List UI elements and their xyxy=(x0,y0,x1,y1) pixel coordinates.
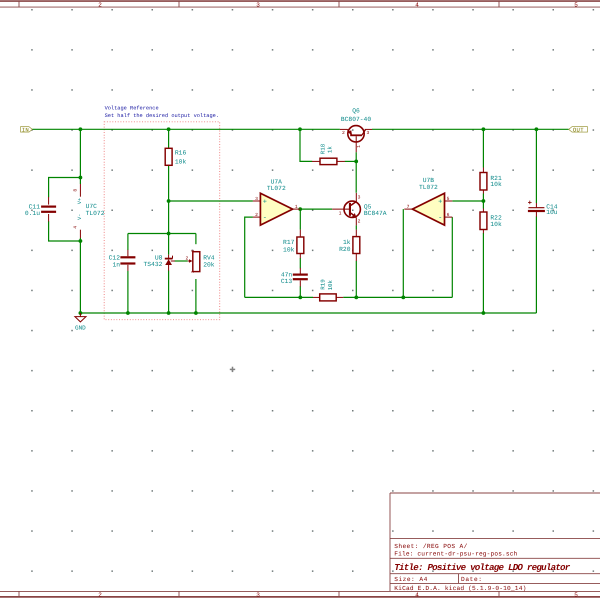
svg-text:5: 5 xyxy=(574,591,578,598)
resistor R18 xyxy=(312,143,345,164)
svg-text:3: 3 xyxy=(256,591,260,598)
svg-text:File: current-dr-psu-reg-pos.s: File: current-dr-psu-reg-pos.sch xyxy=(394,551,517,558)
svg-text:BC807-40: BC807-40 xyxy=(341,116,371,123)
wire C14 branch xyxy=(535,129,537,313)
transistor Q5 BC847A xyxy=(332,193,387,225)
wire V+ riser xyxy=(79,129,81,184)
svg-text:4: 4 xyxy=(415,2,419,9)
wire ground rail xyxy=(80,312,536,314)
sheet frame top xyxy=(0,1,600,7)
wire C11 bottom link xyxy=(49,221,81,241)
wire V- to ground xyxy=(79,238,81,313)
svg-text:Q6: Q6 xyxy=(352,108,360,115)
svg-text:TL072: TL072 xyxy=(267,185,286,192)
svg-text:KiCad E.D.A. kicad (5.1.9-0-1: KiCad E.D.A. kicad (5.1.9-0-10_14) xyxy=(394,585,526,592)
ground symbol xyxy=(75,313,86,332)
svg-text:5: 5 xyxy=(574,2,578,9)
wire C12 branch xyxy=(127,234,129,314)
svg-text:TS432: TS432 xyxy=(143,261,162,268)
svg-text:2: 2 xyxy=(98,2,102,9)
shunt reference U8 TS432 xyxy=(143,255,174,271)
op-amp U7A xyxy=(253,178,300,225)
svg-text:10k: 10k xyxy=(283,247,295,254)
svg-text:5: 5 xyxy=(447,196,450,202)
svg-text:OUT: OUT xyxy=(573,126,584,133)
junction dots xyxy=(79,127,539,315)
resistor R21 xyxy=(480,168,502,194)
svg-text:7: 7 xyxy=(407,204,410,210)
resistor R22 xyxy=(480,209,502,234)
resistor R16 xyxy=(165,148,186,165)
wire C11 top link xyxy=(49,178,81,198)
title block xyxy=(390,493,600,591)
svg-text:+: + xyxy=(438,198,442,206)
sheet frame bottom numbers xyxy=(98,591,578,598)
svg-text:10k: 10k xyxy=(327,279,334,290)
svg-text:TL072: TL072 xyxy=(419,184,438,191)
svg-text:8: 8 xyxy=(73,189,79,192)
svg-text:3: 3 xyxy=(255,196,258,202)
global label OUT xyxy=(569,126,588,133)
svg-text:10k: 10k xyxy=(175,159,187,166)
capacitor C12 xyxy=(109,250,136,271)
svg-text:3: 3 xyxy=(256,2,260,9)
transistor Q6 BC807-40 xyxy=(340,108,372,153)
svg-text:4: 4 xyxy=(415,591,419,598)
svg-text:V-: V- xyxy=(77,214,83,220)
wire U7B pin6 riser xyxy=(451,217,453,297)
capacitor C13 xyxy=(281,268,308,287)
note: voltage reference comment xyxy=(105,106,219,120)
wire R18 net xyxy=(300,129,356,193)
svg-text:+: + xyxy=(263,198,267,206)
svg-text:1k: 1k xyxy=(343,239,351,246)
svg-text:Voltage Reference: Voltage Reference xyxy=(105,106,159,112)
resistor R20 xyxy=(339,230,360,261)
svg-text:3: 3 xyxy=(367,130,370,136)
wire U7A output to Q5 base xyxy=(300,208,332,210)
capacitor C14 polarized xyxy=(528,201,558,217)
wire R16 branch xyxy=(169,129,253,233)
wire IN rail xyxy=(32,128,568,130)
svg-text:10u: 10u xyxy=(546,209,558,216)
svg-text:2: 2 xyxy=(358,219,361,225)
svg-text:R17: R17 xyxy=(283,239,295,246)
svg-text:0.1u: 0.1u xyxy=(25,210,40,217)
wire U8 branch xyxy=(169,234,188,314)
svg-text:2: 2 xyxy=(255,212,258,218)
svg-text:U7B: U7B xyxy=(423,177,435,184)
svg-text:6: 6 xyxy=(447,212,450,218)
svg-text:4: 4 xyxy=(73,226,79,229)
svg-text:-: - xyxy=(263,215,267,223)
svg-text:1n: 1n xyxy=(112,262,120,269)
svg-text:-: - xyxy=(438,215,442,223)
svg-text:R19: R19 xyxy=(319,279,326,290)
wire reference mid rail xyxy=(128,233,196,235)
resistor R17 xyxy=(283,230,304,259)
global label IN xyxy=(21,126,33,133)
svg-text:Title: Positive voltage LDO re: Title: Positive voltage LDO regulator xyxy=(394,562,570,573)
resistor R19 xyxy=(313,279,343,301)
svg-text:10k: 10k xyxy=(490,181,502,188)
svg-text:Size: A4: Size: A4 xyxy=(394,576,427,583)
potentiometer RV4 xyxy=(185,249,214,273)
wire R21 R22 chain xyxy=(482,129,484,313)
svg-text:2: 2 xyxy=(185,256,188,262)
svg-text:Sheet: /REG POS A/: Sheet: /REG POS A/ xyxy=(394,543,467,550)
svg-text:IN: IN xyxy=(22,126,29,133)
wire RV4 branch xyxy=(195,234,197,314)
svg-text:Set half the desired output vo: Set half the desired output voltage. xyxy=(105,113,219,119)
svg-text:1: 1 xyxy=(339,210,342,216)
sheet frame bottom xyxy=(0,591,600,597)
svg-text:1: 1 xyxy=(295,204,298,210)
svg-text:GND: GND xyxy=(75,325,86,332)
svg-text:2: 2 xyxy=(342,130,345,136)
wire R17 C13 chain xyxy=(299,209,301,297)
svg-text:1k: 1k xyxy=(326,146,333,153)
svg-text:R20: R20 xyxy=(339,246,351,253)
svg-text:TL072: TL072 xyxy=(86,210,105,217)
svg-text:BC847A: BC847A xyxy=(364,210,387,217)
dashed note box xyxy=(104,122,220,320)
svg-text:1: 1 xyxy=(356,145,362,148)
sheet frame top numbers xyxy=(98,2,578,9)
svg-text:3: 3 xyxy=(358,195,361,201)
capacitor C11 xyxy=(25,197,56,222)
title block texts xyxy=(394,543,570,592)
svg-text:V+: V+ xyxy=(77,198,83,204)
svg-text:C13: C13 xyxy=(281,278,293,285)
svg-text:10k: 10k xyxy=(490,221,502,228)
wire U7B pin5 net xyxy=(452,200,483,202)
sheet origin marker xyxy=(230,367,235,372)
wire Q5 emitter to R20 xyxy=(355,225,357,297)
svg-text:Date:: Date: xyxy=(461,576,482,583)
svg-text:R16: R16 xyxy=(175,150,187,157)
svg-text:20k: 20k xyxy=(203,262,215,269)
svg-text:2: 2 xyxy=(98,591,102,598)
op-amp U7C power unit xyxy=(73,184,105,238)
wire feedback rail xyxy=(245,296,453,298)
wire U7B output riser xyxy=(402,209,404,297)
op-amp U7B xyxy=(404,177,452,225)
wire U7A inverting input net xyxy=(245,217,253,297)
